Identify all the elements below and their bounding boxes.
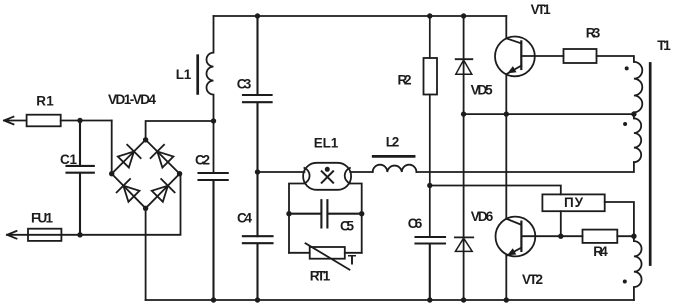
node half-bridge midpoint <box>504 111 509 116</box>
svg-text:FU1: FU1 <box>31 211 53 226</box>
svg-text:VT2: VT2 <box>522 272 543 287</box>
transistor VT1 circle <box>495 37 535 77</box>
svg-text:VD6: VD6 <box>471 209 494 224</box>
wire midpoint row <box>464 113 634 115</box>
transistor VT1 collector wire <box>506 16 521 43</box>
node T1 windings junction <box>631 111 636 116</box>
svg-text:R1: R1 <box>36 94 54 109</box>
node R2 C6 trigger junction <box>427 183 432 188</box>
lamp EL1 X mark <box>322 171 333 182</box>
node VT2 base <box>558 234 563 239</box>
diode VD3 bottom-left <box>117 179 141 203</box>
lamp EL1 right electrode <box>345 168 350 183</box>
capacitor C1 <box>67 121 94 235</box>
transformer T1 middle winding <box>634 118 641 162</box>
transistor VT2 circle <box>496 217 536 257</box>
transistor VT2 emitter with arrow <box>506 248 521 256</box>
resistor R2 <box>424 16 438 237</box>
transistor VT2 base bar <box>520 222 522 251</box>
wire lamp row right to L2 <box>350 171 372 173</box>
lamp EL1 left electrode <box>304 168 309 183</box>
wire bridge top corner to C2 column <box>146 121 214 140</box>
capacitor C4 <box>243 236 273 300</box>
wire L2 to T1 middle winding <box>416 162 634 172</box>
svg-text:R4: R4 <box>593 244 608 259</box>
wire PU bottom to VT2 base node <box>560 211 562 236</box>
wire mains input line 1 with arrow <box>4 117 27 125</box>
node bottom rail VT2 emitter <box>504 297 509 302</box>
transformer T1 middle winding polarity dot <box>623 122 627 126</box>
node R1 C1 junction <box>77 118 82 123</box>
svg-text:C4: C4 <box>237 211 252 226</box>
node bridge DC plus junction <box>211 118 216 123</box>
diode VD5 <box>456 16 473 237</box>
node R4 right <box>631 234 636 239</box>
svg-text:C3: C3 <box>237 77 252 92</box>
svg-text:ПУ: ПУ <box>564 195 584 210</box>
wire mains input line 2 with arrow <box>7 231 28 239</box>
inductor L2 core bar <box>373 155 414 158</box>
node top rail VD5 <box>461 13 466 18</box>
svg-text:C1: C1 <box>60 152 77 167</box>
svg-text:VD1-VD4: VD1-VD4 <box>108 92 156 107</box>
node C5 left <box>286 211 291 216</box>
svg-text:C5: C5 <box>340 219 354 234</box>
node bottom rail VD6 <box>461 297 466 302</box>
inductor L1 coil <box>207 16 214 173</box>
lamp EL1 dot <box>325 167 330 172</box>
wire FU1 to bridge right corner <box>61 174 180 235</box>
transistor VT1 base bar <box>520 41 522 69</box>
wire R1 to node A <box>61 120 112 122</box>
capacitor C3 <box>243 16 272 236</box>
wire node A to bridge left corner <box>111 121 113 174</box>
wire lamp row left <box>258 171 305 173</box>
wire R3 to T1 top winding <box>597 56 634 62</box>
svg-text:EL1: EL1 <box>314 136 339 151</box>
wire lamp lower-right pin <box>349 184 362 253</box>
node bridge right corner <box>177 171 182 176</box>
transistor VT2 base lead <box>521 235 582 237</box>
node bridge left corner <box>109 171 114 176</box>
node C5 right <box>359 211 364 216</box>
node bottom rail C2 <box>211 297 216 302</box>
wire R2 node to trigger <box>430 186 561 195</box>
wire lamp lower-left pin <box>289 184 305 253</box>
transformer T1 top winding polarity dot <box>625 66 629 70</box>
bridge rectifier VD1-VD4 diamond <box>112 140 180 209</box>
svg-text:T1: T1 <box>657 38 671 53</box>
transformer T1 top winding <box>634 62 642 119</box>
wire bridge bottom corner to bottom rail <box>145 208 147 300</box>
wire bottom rail <box>146 299 634 301</box>
thermistor RT1 diagonal <box>306 243 350 269</box>
transformer T1 bottom winding <box>634 236 642 300</box>
transistor VT2 collector wire <box>506 219 521 225</box>
lamp EL1 bulb outline <box>303 163 351 190</box>
fuse FU1 <box>28 229 61 241</box>
capacitor C6 <box>416 237 446 300</box>
inductor L1 core bar <box>196 56 199 94</box>
diode VD1 top-left <box>117 145 141 169</box>
resistor R4 <box>583 230 618 243</box>
svg-text:C6: C6 <box>408 216 423 231</box>
node lamp left <box>255 169 260 174</box>
resistor R1 <box>27 115 61 127</box>
node VD5 VD6 midpoint <box>461 111 466 116</box>
thermistor RT1 box <box>289 247 362 259</box>
wire midpoint column VT1 emitter to VT2 collector <box>505 74 507 219</box>
node top rail R2 <box>427 13 432 18</box>
svg-text:R3: R3 <box>586 26 601 41</box>
node FU1 C1 junction <box>77 232 82 237</box>
svg-text:VD5: VD5 <box>471 83 493 98</box>
svg-text:R2: R2 <box>398 73 412 88</box>
node bottom rail C4 <box>255 297 260 302</box>
wire PU right to R4 right node <box>605 202 634 236</box>
svg-text:T: T <box>348 253 357 268</box>
svg-text:L2: L2 <box>386 135 400 150</box>
diode VD6 <box>455 237 473 300</box>
node top rail C3 <box>255 13 260 18</box>
svg-text:L1: L1 <box>176 67 192 82</box>
node bridge bottom corner <box>143 206 148 211</box>
transistor VT1 emitter with arrow <box>507 66 522 75</box>
capacitor C5 <box>289 200 362 227</box>
diode VD2 top-right <box>151 145 175 169</box>
resistor R3 <box>564 49 597 63</box>
transformer T1 bottom winding polarity dot <box>623 280 627 284</box>
node bottom rail C6 <box>427 297 432 302</box>
transformer T1 core bar <box>649 64 652 265</box>
node bridge top corner <box>143 137 148 142</box>
wire top rail <box>214 15 507 17</box>
wire VT2 emitter to bottom rail <box>505 256 507 301</box>
capacitor C2 <box>199 173 228 300</box>
diode VD4 bottom-right <box>151 179 175 203</box>
wire R4 to right node <box>617 235 634 237</box>
svg-text:RT1: RT1 <box>310 269 331 284</box>
transistor VT1 base lead to R3 <box>521 55 563 57</box>
trigger device PU box <box>542 194 604 211</box>
svg-text:VT1: VT1 <box>531 2 551 17</box>
inductor L2 coil <box>373 165 417 172</box>
svg-text:C2: C2 <box>195 153 210 168</box>
